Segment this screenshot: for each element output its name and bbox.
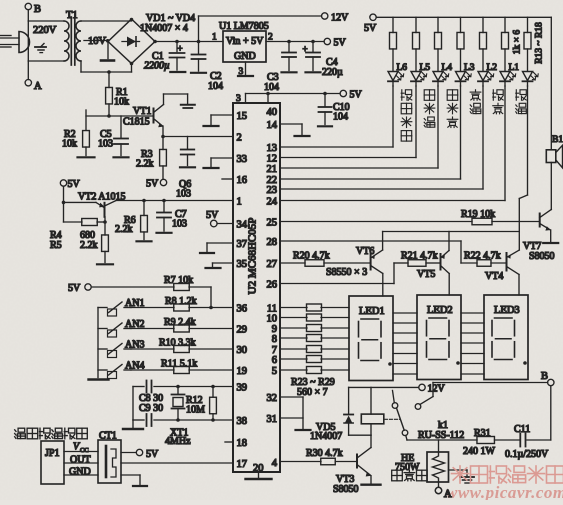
svg-text:5V: 5V — [68, 283, 81, 294]
svg-text:104: 104 — [333, 112, 348, 123]
capacitor C7 103 — [163, 201, 165, 212]
resistor column 7 — [527, 17, 529, 32]
capacitor C9 30 series — [146, 414, 148, 426]
resistor R9 2.4k — [131, 328, 174, 330]
wire LED column 2 to MCU — [415, 86, 417, 158]
svg-text:L5: L5 — [420, 63, 431, 73]
wire 12V line — [349, 386, 419, 388]
svg-text:12V: 12V — [428, 384, 446, 395]
wire secondary bottom loop — [80, 61, 82, 72]
svg-text:1: 1 — [237, 196, 242, 207]
wire pin25 line — [280, 221, 472, 223]
svg-text:240 1W: 240 1W — [463, 446, 496, 457]
terminal A bottom — [435, 487, 441, 493]
terminal A — [25, 80, 31, 86]
svg-text:16: 16 — [237, 175, 248, 186]
resistor column 5 (R17) — [482, 17, 484, 32]
svg-text:R5: R5 — [50, 240, 62, 251]
svg-text:103: 103 — [172, 219, 187, 230]
center tap stub with bar — [107, 41, 109, 59]
svg-text:VT1: VT1 — [133, 106, 151, 117]
left vertical + ground — [132, 387, 134, 421]
resistor R10 3.3k — [131, 348, 174, 350]
transistor VT7 S8050 — [539, 214, 541, 227]
LED L2 — [478, 72, 488, 81]
LED L4 — [433, 72, 443, 81]
svg-text:JP1: JP1 — [45, 448, 59, 459]
wires JP1 to CT1 — [64, 451, 98, 453]
svg-text:103: 103 — [176, 189, 191, 200]
resistor R1 10k — [107, 70, 111, 74]
switch AN2 — [98, 328, 107, 330]
crystal XT1 4MHz — [177, 387, 179, 394]
heater side ground — [449, 469, 468, 471]
diode VD5 1N4007 — [348, 387, 350, 413]
svg-text:104: 104 — [264, 82, 279, 93]
wire U1 output 5V — [266, 41, 324, 43]
pin16 stub — [222, 178, 233, 180]
svg-text:GND: GND — [69, 467, 91, 478]
svg-text:5V: 5V — [206, 210, 219, 221]
relay switch k1 contacts — [392, 403, 398, 409]
wire secondary top to bridge — [81, 20, 132, 22]
svg-text:10: 10 — [267, 313, 278, 324]
capacitor C2 104 — [198, 42, 200, 55]
svg-text:U2 MC68HC05P: U2 MC68HC05P — [247, 218, 259, 295]
wire primary bottom / terminal A — [27, 21, 29, 61]
svg-text:2200µ: 2200µ — [144, 61, 170, 72]
svg-text:LED2: LED2 — [427, 305, 453, 316]
resistor R11 5.1k — [131, 369, 174, 371]
resistor R7 10k line — [91, 286, 174, 288]
svg-text:103: 103 — [98, 139, 113, 150]
connector JP1 — [41, 441, 64, 484]
segment bus between LED2 and LED3 — [461, 312, 484, 314]
ground in primary loop — [35, 46, 46, 48]
wire MCU pin2 — [163, 136, 233, 138]
resistor R4 680 — [82, 219, 98, 226]
svg-text:27: 27 — [267, 259, 278, 270]
wire LED column 3 to MCU — [437, 86, 439, 168]
wire base line y116 — [86, 115, 153, 117]
svg-text:220µ: 220µ — [322, 67, 343, 78]
heater HE 750W — [438, 440, 440, 452]
svg-text:A: A — [444, 489, 452, 500]
keypad ground bus — [97, 308, 99, 378]
bridge rectifier VD1-VD4 — [108, 19, 155, 64]
wire bridge output to U1 — [155, 41, 223, 43]
pin15 ground — [211, 114, 233, 116]
svg-text:LED3: LED3 — [494, 305, 520, 316]
wire pin39 line — [133, 386, 144, 388]
resistor R20 4.7k — [305, 260, 324, 267]
capacitor C1 2200u — [176, 42, 178, 52]
VT5 collector to LED2 — [448, 274, 450, 296]
svg-text:S8050: S8050 — [529, 251, 555, 262]
terminal 5V near C10 — [340, 90, 346, 96]
resistor column 2 (R14) — [415, 17, 417, 32]
pin35 ground — [213, 262, 234, 264]
pin14 ground — [280, 123, 302, 125]
svg-text:VT4: VT4 — [485, 271, 503, 282]
svg-text:38: 38 — [237, 416, 248, 427]
speaker feed from rail — [550, 17, 552, 150]
svg-text:R9 2.4k: R9 2.4k — [164, 317, 196, 328]
relay contact link dashed — [384, 418, 399, 420]
VT4 collector to LED3 — [518, 275, 520, 296]
svg-text:0.1µ/250V: 0.1µ/250V — [505, 449, 549, 460]
terminal A bottom overlay — [435, 487, 441, 493]
svg-text:1: 1 — [212, 33, 217, 43]
svg-text:10k: 10k — [114, 97, 129, 108]
svg-text:5V: 5V — [334, 38, 347, 49]
svg-text:34: 34 — [237, 219, 248, 230]
pin18 stub — [225, 441, 233, 443]
transformer T1 secondary winding — [76, 21, 81, 61]
pin37 ground — [207, 242, 233, 244]
LED L3 — [456, 72, 466, 81]
svg-text:2: 2 — [237, 132, 242, 143]
svg-text:CC: CC — [80, 447, 89, 454]
svg-text:12: 12 — [267, 153, 278, 164]
svg-text:8: 8 — [272, 334, 277, 345]
wire CT1 OUT to pin17 — [121, 462, 233, 464]
resistor R3 2.2k — [162, 137, 164, 150]
resistor R19 10k — [472, 218, 492, 225]
switch AN3 — [98, 348, 107, 350]
pin34 5V terminal — [211, 220, 218, 227]
svg-text:40: 40 — [267, 107, 278, 118]
capacitor C6 103 on pin2 line — [187, 137, 189, 149]
svg-text:L4: L4 — [442, 63, 453, 73]
svg-text:R22 4.7k: R22 4.7k — [464, 251, 501, 262]
svg-text:R7 10k: R7 10k — [164, 275, 193, 286]
LED supply rail — [376, 16, 551, 18]
svg-text:R8 1.2k: R8 1.2k — [165, 296, 197, 307]
svg-text:36: 36 — [237, 303, 248, 314]
resistor R2 10k — [85, 110, 87, 130]
wire secondary tap to bridge left — [84, 40, 108, 42]
svg-text:+ 5V: + 5V — [243, 36, 264, 47]
svg-text:4: 4 — [272, 458, 278, 469]
terminal 5V below R3 — [160, 179, 166, 185]
wire pin28 line to R22 — [280, 240, 461, 242]
segment bus between LED1 and LED2 — [393, 312, 417, 314]
wire LED column 6 to MCU — [504, 86, 506, 201]
svg-text:28: 28 — [267, 237, 278, 248]
LED L6 — [388, 72, 398, 81]
svg-text:R10 3.3k: R10 3.3k — [159, 338, 196, 349]
svg-text:LED1: LED1 — [359, 306, 385, 317]
svg-text:104: 104 — [208, 81, 223, 92]
svg-text:3: 3 — [236, 94, 241, 104]
LED L5 — [411, 72, 421, 81]
svg-text:15: 15 — [237, 111, 248, 122]
svg-text:C11: C11 — [514, 424, 530, 435]
svg-text:30: 30 — [237, 345, 248, 356]
svg-text:R20 4.7k: R20 4.7k — [293, 251, 330, 262]
relay k1 coil — [370, 387, 372, 414]
resistor R27 — [280, 348, 307, 350]
svg-text:C1815: C1815 — [123, 117, 150, 128]
switch AN4 — [98, 369, 107, 371]
wire LED column 7 feed — [527, 86, 529, 195]
capacitor C4 220u — [311, 40, 315, 44]
R4/R5 node — [63, 202, 65, 222]
svg-text:29: 29 — [237, 324, 248, 335]
svg-text:6: 6 — [272, 355, 277, 366]
wire pin26 line to R21 — [280, 283, 394, 285]
svg-text:13: 13 — [267, 143, 278, 154]
capacitor C11 0.1u/250V — [519, 434, 521, 447]
wire LED column 5 to MCU — [482, 86, 484, 189]
watermark red — [452, 466, 469, 483]
svg-text:23: 23 — [267, 185, 278, 196]
svg-text:R19 10k: R19 10k — [461, 209, 495, 220]
svg-text:35: 35 — [237, 259, 248, 270]
svg-text:A: A — [34, 81, 42, 92]
pins 32/31 to ground — [280, 396, 303, 398]
svg-text:19: 19 — [237, 366, 248, 377]
wire LED column 4 to MCU — [460, 86, 462, 179]
svg-text:14: 14 — [267, 120, 278, 131]
resistor R31 240 1W — [495, 439, 520, 441]
resistor column 3 (R15) — [437, 17, 439, 32]
wire MCU pin1 line — [116, 200, 233, 202]
svg-text:R31: R31 — [474, 428, 491, 439]
svg-text:5V: 5V — [364, 23, 377, 34]
wire pin38 line — [133, 419, 144, 421]
svg-text:C9 30: C9 30 — [139, 403, 163, 414]
svg-text:1N4007 × 4: 1N4007 × 4 — [140, 23, 188, 34]
capacitor C10 104 — [324, 94, 326, 107]
display LED3 — [484, 295, 528, 380]
capacitor C8 30 series — [146, 381, 148, 393]
resistor column 1 (R13) — [392, 17, 394, 32]
svg-text:18: 18 — [237, 438, 248, 449]
switch AN1 — [98, 307, 107, 309]
svg-text:L1: L1 — [509, 63, 520, 73]
svg-text:4MHz: 4MHz — [165, 436, 191, 447]
snubber branch — [550, 386, 552, 440]
LED extra — [523, 72, 533, 81]
svg-text:32: 32 — [267, 393, 278, 404]
LED L1 — [500, 72, 510, 81]
wire LED column 1 to MCU — [392, 86, 394, 147]
svg-text:5V: 5V — [350, 90, 363, 101]
svg-text:L3: L3 — [464, 63, 475, 73]
resistor column 4 (R16) — [460, 17, 462, 32]
svg-text:S8550 × 3: S8550 × 3 — [326, 267, 367, 278]
transformer T1 primary winding — [64, 21, 69, 61]
transformer T1 core — [70, 17, 72, 65]
svg-text:33: 33 — [237, 154, 248, 165]
resistor R5 2.2k — [104, 222, 106, 235]
wire 12V riser — [198, 16, 200, 42]
capacitor C5 103 — [120, 116, 122, 138]
svg-text:R21 4.7k: R21 4.7k — [401, 251, 438, 262]
svg-text:17: 17 — [237, 459, 248, 470]
resistor R28 — [280, 358, 307, 360]
svg-text:21: 21 — [267, 164, 278, 175]
svg-text:L6: L6 — [397, 63, 408, 73]
wire to terminal B — [432, 383, 434, 397]
svg-text:26: 26 — [267, 279, 278, 290]
MCU pin40 to 5V line — [267, 94, 269, 104]
svg-text:VT5: VT5 — [417, 269, 435, 280]
svg-text:2.2k: 2.2k — [115, 224, 133, 235]
svg-text:5V: 5V — [68, 179, 81, 190]
VT7 collector to speaker — [550, 163, 552, 210]
svg-text:Vin: Vin — [226, 36, 240, 47]
svg-text:www.picavr.com: www.picavr.com — [446, 483, 563, 500]
svg-text:5: 5 — [272, 366, 277, 377]
svg-text:31: 31 — [267, 414, 278, 425]
terminal B right — [548, 379, 554, 385]
resistor R12 10M — [212, 387, 214, 398]
svg-text:B1: B1 — [552, 135, 563, 145]
display LED2 — [417, 295, 461, 380]
svg-text:1N4007: 1N4007 — [310, 431, 342, 442]
svg-text:B: B — [34, 4, 41, 15]
svg-text:B: B — [541, 371, 548, 382]
terminal 5V right of CT1 — [121, 452, 136, 454]
resistor R25 — [280, 327, 307, 329]
terminal 5V (U1 out) — [324, 38, 330, 44]
VT1 collector bracket to bars — [163, 94, 165, 105]
VT7 emitter ground — [550, 230, 552, 242]
svg-text:25: 25 — [267, 217, 278, 228]
resistor column 6 (R18) — [504, 17, 506, 32]
svg-text:R11 5.1k: R11 5.1k — [161, 359, 197, 370]
bridge inner diode — [122, 41, 140, 43]
terminal 12V top — [322, 13, 328, 19]
terminal B — [25, 3, 31, 9]
svg-text:39: 39 — [237, 382, 248, 393]
svg-text:2.2k: 2.2k — [80, 240, 98, 251]
resistor R22 4.7k — [461, 262, 477, 264]
terminal 12V lower — [419, 384, 425, 390]
svg-text:OUT: OUT — [70, 455, 91, 466]
svg-text:37: 37 — [237, 239, 248, 250]
svg-text:5V: 5V — [146, 179, 159, 190]
capacitor C3 104 — [287, 40, 291, 44]
svg-text:+: + — [178, 44, 183, 54]
emitter rail — [382, 232, 384, 251]
wire primary top — [28, 20, 64, 22]
resistor R26 — [280, 337, 307, 339]
CT1 GND to ground — [121, 474, 140, 476]
VT1 emitter to pin2 node — [162, 126, 164, 137]
svg-text:220V: 220V — [33, 25, 57, 36]
svg-text:10M: 10M — [186, 405, 205, 416]
resistor R24 — [280, 317, 307, 319]
svg-text:GND: GND — [234, 51, 256, 62]
MCU U2 MC68HC05P — [233, 103, 280, 472]
plug P — [19, 32, 30, 53]
terminal 5V left — [60, 180, 66, 186]
svg-text:24: 24 — [267, 196, 278, 207]
pin33 ground — [211, 157, 233, 159]
svg-text:10k: 10k — [62, 139, 77, 150]
VT6 collector to LED1 — [382, 274, 384, 297]
resistor R8 1.2k — [131, 307, 174, 309]
label temperature module (Chinese) — [15, 428, 26, 438]
svg-text:10V: 10V — [88, 36, 107, 47]
svg-text:5V: 5V — [146, 449, 159, 460]
display LED1 — [349, 296, 393, 381]
resistor R23 — [280, 307, 307, 309]
resistor R29 — [280, 369, 307, 371]
terminal 5V LED rail — [370, 14, 376, 20]
resistor R6 2.2k — [143, 201, 145, 216]
svg-text:12V: 12V — [331, 13, 349, 24]
resistor R21 4.7k — [394, 262, 408, 264]
svg-text:L2: L2 — [487, 63, 498, 73]
svg-text:R13 ~ R18: R13 ~ R18 — [535, 22, 545, 64]
transistor VT3 S8050 — [280, 461, 321, 463]
svg-text:2.2k: 2.2k — [136, 159, 154, 170]
wire pin27 line — [280, 262, 305, 264]
svg-text:S8050: S8050 — [333, 484, 359, 495]
svg-text:R30 4.7k: R30 4.7k — [306, 448, 343, 459]
svg-text:1k × 6: 1k × 6 — [513, 30, 523, 55]
LED function labels (Chinese columns) — [401, 90, 412, 100]
